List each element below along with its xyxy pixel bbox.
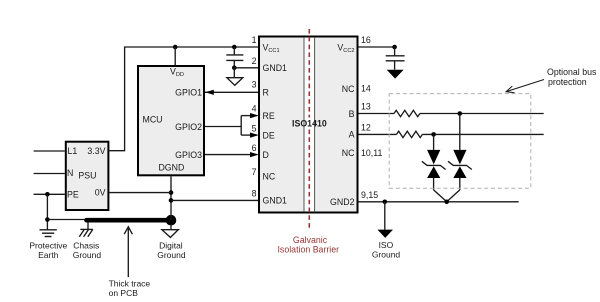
iso ground symbol (filled triangle) at C2	[387, 70, 404, 79]
PSU body	[66, 142, 109, 210]
TVS diode D2 on B	[447, 114, 472, 202]
svg-text:8: 8	[252, 189, 257, 199]
node C1 top tap	[232, 45, 237, 50]
svg-text:PSU: PSU	[78, 171, 96, 181]
svg-text:NC: NC	[342, 84, 355, 94]
svg-text:D: D	[263, 150, 269, 160]
svg-text:Optional bus: Optional bus	[547, 67, 597, 77]
wire R pin3 to GPIO1	[205, 91, 258, 93]
resistor R1 on B	[394, 110, 420, 116]
svg-text:10,11: 10,11	[361, 148, 382, 158]
wire N input	[34, 173, 65, 175]
galvanic isolation barrier dashed line	[308, 29, 310, 228]
svg-text:9,15: 9,15	[361, 190, 378, 200]
node A TVS tap	[431, 132, 436, 137]
node PE-earth junction	[45, 217, 50, 222]
wire C1 ground stem	[233, 68, 235, 78]
svg-text:GND1: GND1	[263, 63, 288, 73]
thick trace on PCB	[87, 218, 172, 223]
node C1 bottom tap	[232, 66, 237, 71]
TVS diode D1 on A	[422, 134, 447, 201]
arrowhead into RE	[250, 113, 259, 118]
arrowhead into DE	[250, 133, 259, 138]
optional bus protection dashed box	[389, 94, 531, 189]
svg-text:1: 1	[252, 35, 257, 45]
svg-text:NC: NC	[263, 171, 276, 181]
MCU U2 body	[138, 66, 204, 175]
node VDD tap	[173, 45, 178, 50]
optional bus protection callout arrow	[506, 80, 544, 93]
thick trace callout arrow	[124, 227, 132, 277]
chassis ground symbol	[79, 229, 93, 236]
svg-text:DGND: DGND	[158, 162, 184, 172]
svg-text:Ground: Ground	[73, 250, 102, 260]
node ISO ground tap	[383, 200, 388, 205]
IC U1 ISO1410 body	[259, 37, 358, 213]
capacitor C1	[226, 47, 243, 68]
protective earth ground symbol	[40, 230, 57, 237]
svg-text:3.3V: 3.3V	[87, 146, 105, 156]
node 0V junction	[169, 190, 174, 195]
svg-text:Ground: Ground	[157, 250, 186, 260]
svg-text:14: 14	[361, 84, 371, 94]
text ISO Ground	[372, 240, 401, 259]
wire 0V	[109, 192, 171, 194]
node PE junction	[45, 192, 50, 197]
wire GPIO2	[205, 126, 241, 128]
svg-text:Ground: Ground	[372, 249, 401, 259]
svg-text:GPIO3: GPIO3	[175, 150, 202, 160]
wire DGND down	[170, 176, 172, 220]
wire RE/DE bracket	[240, 116, 242, 136]
wire ISO ground stem	[384, 202, 386, 230]
svg-text:B: B	[349, 109, 355, 119]
svg-text:ISO1410: ISO1410	[292, 119, 327, 129]
wire GND1 pin8	[171, 199, 258, 201]
wire VDD stub	[174, 47, 176, 65]
node C2 tap	[392, 45, 397, 50]
svg-text:MCU: MCU	[143, 115, 163, 125]
wire L1 input	[34, 150, 65, 152]
svg-text:GND2: GND2	[330, 197, 355, 207]
text Thick trace on PCB	[109, 279, 151, 299]
svg-text:A: A	[349, 130, 355, 140]
svg-text:GND1: GND1	[263, 196, 288, 206]
node GND1 junction	[169, 198, 174, 203]
svg-text:Isolation Barrier: Isolation Barrier	[277, 245, 339, 255]
svg-text:GPIO2: GPIO2	[175, 122, 202, 132]
wire DE pin5	[241, 134, 252, 136]
text Chasis Ground	[73, 240, 102, 259]
text Galvanic Isolation Barrier	[277, 235, 339, 254]
node digital ground big junction	[166, 215, 177, 226]
svg-text:RE: RE	[263, 111, 275, 121]
capacitor C2	[386, 47, 405, 70]
svg-text:NC: NC	[342, 148, 355, 158]
signal ground symbol (open triangle)	[227, 78, 243, 86]
svg-text:3: 3	[252, 80, 257, 90]
wire 3.3V to VCC1 net	[109, 47, 258, 151]
wire earth link to thick trace	[47, 219, 86, 221]
wire VCC2 pin16	[359, 46, 395, 48]
svg-text:4: 4	[252, 103, 257, 113]
svg-text:5: 5	[252, 123, 257, 133]
svg-text:Earth: Earth	[38, 250, 59, 260]
text Digital Ground	[157, 240, 186, 259]
wire B to bus	[420, 113, 544, 115]
svg-text:GPIO1: GPIO1	[175, 88, 202, 98]
svg-text:0V: 0V	[95, 188, 106, 198]
node TVS common tap	[444, 200, 449, 205]
svg-text:R: R	[263, 88, 269, 98]
svg-text:Thick trace: Thick trace	[109, 279, 151, 289]
wire A pin12	[359, 133, 397, 135]
svg-text:N: N	[67, 168, 73, 178]
svg-text:L1: L1	[68, 146, 78, 156]
wire chassis stem	[87, 222, 89, 229]
text Protective Earth	[29, 240, 67, 259]
resistor R2 on A	[397, 131, 423, 137]
wire digital ground stem	[170, 224, 172, 230]
wire PE input	[34, 193, 65, 195]
wire GND2 pin9,15	[359, 201, 519, 203]
svg-text:DE: DE	[263, 130, 275, 140]
svg-text:protection: protection	[548, 77, 587, 87]
digital ground symbol (open triangle)	[162, 230, 178, 238]
text Optional bus protection	[547, 67, 597, 87]
wire B pin13	[359, 113, 395, 115]
node B TVS tap	[458, 111, 463, 116]
wire GND1 pin2	[234, 67, 258, 69]
svg-text:16: 16	[361, 35, 371, 45]
svg-text:PE: PE	[67, 190, 79, 200]
wire PE to earth	[46, 194, 48, 230]
arrowhead into GPIO1	[205, 90, 214, 95]
svg-text:6: 6	[252, 143, 257, 153]
svg-text:13: 13	[361, 102, 371, 112]
svg-text:7: 7	[252, 167, 257, 177]
wire A to bus	[422, 133, 543, 135]
svg-text:12: 12	[361, 123, 371, 133]
svg-text:2: 2	[252, 56, 257, 66]
wire RE pin4	[241, 115, 252, 117]
iso ground symbol (filled triangle)	[378, 230, 394, 238]
arrowhead into D	[250, 152, 259, 157]
svg-text:on PCB: on PCB	[109, 288, 139, 298]
wire D pin6 from GPIO3	[205, 154, 252, 156]
